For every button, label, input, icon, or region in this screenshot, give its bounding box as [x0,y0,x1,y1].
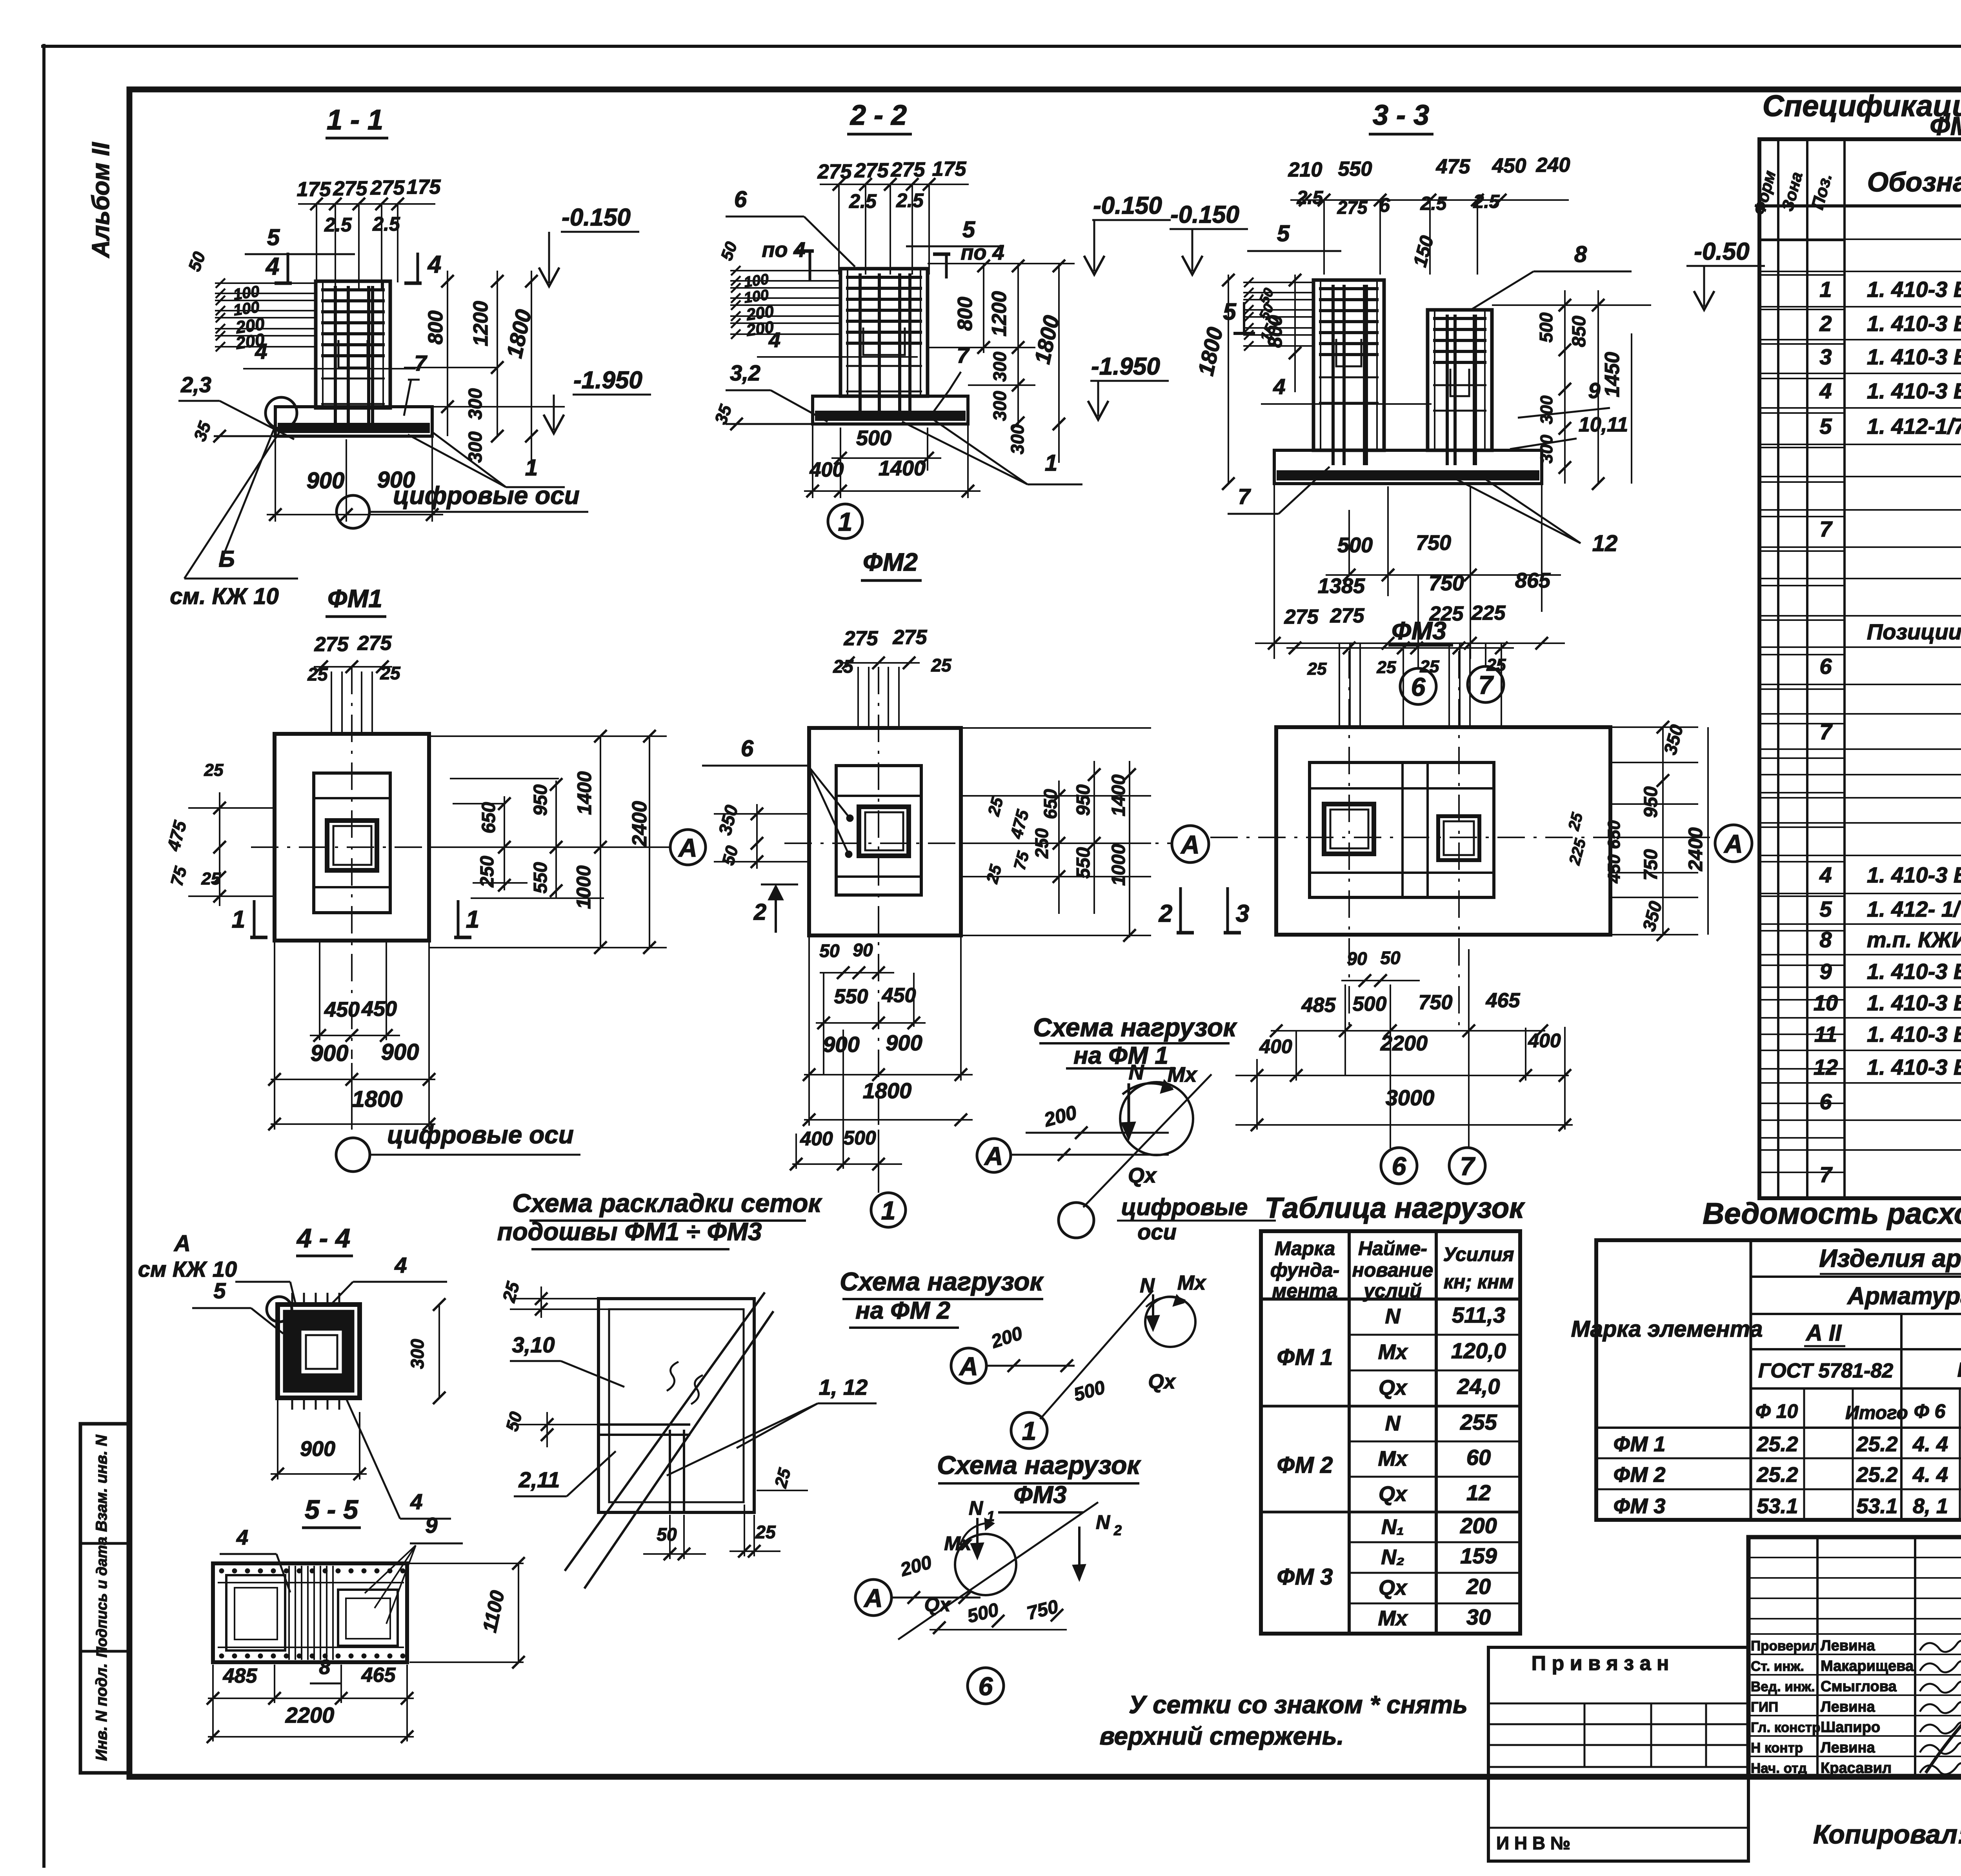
svg-text:6: 6 [1819,654,1832,679]
svg-text:2.5: 2.5 [372,213,400,235]
svg-text:1: 1 [1022,1416,1037,1445]
svg-text:12: 12 [1466,1480,1491,1505]
svg-text:500: 500 [1337,533,1373,557]
svg-text:1. 410-3 Вып. 1: 1. 410-3 Вып. 1 [1867,1022,1961,1046]
svg-text:Ст. инж.: Ст. инж. [1751,1659,1804,1674]
svg-text:400: 400 [1259,1035,1292,1057]
svg-text:Схема нагрузок: Схема нагрузок [937,1450,1141,1479]
svg-text:53.1: 53.1 [1757,1494,1798,1518]
svg-text:Позиции 1÷5 см.: Позиции 1÷5 см. [1867,619,1961,644]
svg-text:ФМ3: ФМ3 [1013,1481,1066,1508]
svg-text:300: 300 [990,351,1010,382]
svg-text:т.п. КЖИ.100.00.01: т.п. КЖИ.100.00.01 [1867,927,1961,952]
svg-text:1: 1 [838,507,853,536]
svg-text:Мx: Мx [1378,1340,1408,1364]
svg-text:ФМ1: ФМ1 [327,584,382,613]
svg-text:Qx: Qx [1379,1376,1408,1399]
svg-text:900: 900 [311,1041,349,1066]
load scheme FM3 sketch [855,1579,891,1616]
svg-text:мента: мента [1272,1280,1337,1302]
svg-text:ФМ 1: ФМ 1 [1614,1432,1666,1456]
load table header [1261,1297,1520,1301]
svg-text:Мx: Мx [1167,1063,1197,1086]
plan FM1 horizontal axis [251,846,669,848]
svg-text:275: 275 [333,177,368,200]
svg-text:25: 25 [755,1522,776,1542]
svg-text:N: N [1096,1511,1110,1533]
svg-text:8: 8 [319,1656,331,1679]
svg-text:Qx: Qx [1148,1370,1176,1393]
section 2-2 axis circle 1 [828,504,862,539]
svg-text:850: 850 [1569,316,1590,347]
svg-text:90: 90 [853,940,873,960]
plan FM3 axis circles 6 7 [1381,1148,1417,1184]
svg-text:50: 50 [819,941,840,961]
svg-text:950: 950 [530,784,551,816]
svg-text:500: 500 [843,1127,876,1149]
plan FM3 axis circle A right [1715,825,1752,862]
svg-text:N: N [1385,1305,1401,1328]
svg-text:6: 6 [1379,194,1390,216]
svg-text:5 - 5: 5 - 5 [305,1495,358,1525]
svg-text:175: 175 [407,176,441,198]
title block signature rows [1748,1633,1961,1635]
plan FM1 outer square [275,734,429,941]
svg-text:А: А [984,1141,1003,1170]
plan FM2 bottom axis circle 1 [871,1193,906,1227]
svg-text:465: 465 [361,1664,396,1687]
plan FM2 vertical axis [878,667,879,1192]
svg-text:Qx: Qx [1128,1164,1157,1187]
svg-text:ГОСТ 5781-82: ГОСТ 5781-82 [1758,1359,1893,1382]
svg-text:1: 1 [881,1196,896,1225]
svg-text:-0.150: -0.150 [1170,201,1239,228]
title block outer [1748,1537,1961,1777]
svg-text:550: 550 [1338,158,1372,180]
svg-text:210: 210 [1288,158,1322,181]
mesh layout square inner border [609,1309,744,1502]
svg-text:8, 1: 8, 1 [1913,1494,1948,1518]
svg-text:159: 159 [1460,1543,1497,1568]
svg-text:2: 2 [753,899,766,925]
svg-text:Макарищева: Макарищева [1821,1658,1914,1674]
svg-text:Мx: Мx [944,1532,972,1554]
svg-text:25.2: 25.2 [1756,1463,1798,1487]
svg-text:кн; кнм: кн; кнм [1444,1271,1514,1293]
svg-text:Марка элемента: Марка элемента [1571,1316,1763,1342]
section 2-2 column [840,269,928,396]
section 5-5 outer rect [213,1563,407,1662]
plan FM1 bottom axis circle [336,1138,370,1172]
svg-text:-0.150: -0.150 [562,204,631,231]
svg-text:Таблица нагрузок: Таблица нагрузок [1264,1192,1525,1224]
plan FM1 anchor square [327,821,377,870]
svg-text:225: 225 [1429,602,1464,625]
plan FM1 inner rect [314,773,390,913]
mesh layout mid horizontal seam [598,1423,690,1426]
sheet outer border left line [42,44,45,1868]
svg-text:ФМ 3: ФМ 3 [1277,1564,1333,1590]
svg-text:12: 12 [1814,1055,1838,1079]
spec table narrow column ladder [1759,240,1845,241]
svg-text:4: 4 [1819,378,1832,403]
svg-text:90: 90 [1347,948,1367,969]
svg-text:Смыглова: Смыглова [1821,1678,1897,1695]
load scheme FM1 diagonal [1083,1074,1212,1207]
svg-text:1200: 1200 [469,301,492,346]
load scheme FM1 sketch [977,1139,1011,1172]
svg-text:500: 500 [856,426,891,450]
section 3-3 left dim 800 [1294,275,1296,392]
svg-text:ГОСТ 5781- 82: ГОСТ 5781- 82 [1957,1359,1961,1381]
section 3-3 axis circles 6 and 7 [1400,668,1436,704]
svg-text:300: 300 [990,391,1010,421]
svg-text:Мx: Мx [1378,1447,1408,1470]
section 3-3 footing [1274,450,1542,484]
plan FM2 horizontal axis [784,842,1171,844]
svg-text:53.1: 53.1 [1856,1494,1897,1518]
svg-text:250: 250 [1031,828,1052,859]
svg-text:Подпись и дата: Подпись и дата [94,1537,110,1658]
svg-text:см КЖ 10: см КЖ 10 [138,1257,237,1281]
svg-text:7: 7 [1460,1152,1476,1181]
svg-text:см. КЖ 10: см. КЖ 10 [170,584,278,609]
svg-text:Нач. отд: Нач. отд [1751,1761,1807,1776]
svg-text:240: 240 [1536,154,1570,177]
svg-text:1. 410-3 Вып. 1: 1. 410-3 Вып. 1 [1867,378,1961,403]
svg-text:Ведомость расхода стали на: Ведомость расхода стали на элемент, кг [1703,1197,1961,1230]
svg-text:А: А [959,1352,978,1381]
svg-text:1450: 1450 [1601,352,1624,397]
svg-text:на ФМ 1: на ФМ 1 [1073,1042,1168,1069]
svg-text:А: А [173,1231,191,1256]
plan FM3 inner rect [1310,762,1494,897]
section 1-1 bottom dim 900 900 [275,436,276,522]
svg-text:60: 60 [1466,1445,1491,1470]
section 1-1 cut mark 4 left [287,253,289,283]
svg-text:ФМ 3: ФМ 3 [1614,1494,1666,1518]
svg-text:1, 12: 1, 12 [819,1375,868,1399]
svg-text:255: 255 [1460,1410,1497,1434]
plan FM2 inner rect [836,766,921,895]
section 1-1 footing [275,407,432,436]
load scheme FM1 axis circle [1059,1203,1094,1238]
svg-text:275: 275 [1284,606,1319,628]
svg-text:475: 475 [1436,155,1471,178]
svg-text:2.5: 2.5 [324,214,352,236]
svg-text:800: 800 [954,297,977,331]
svg-text:2: 2 [1819,311,1832,336]
privyazan grid [1488,1703,1748,1705]
svg-text:Марка: Марка [1275,1237,1335,1259]
svg-text:Qx: Qx [1379,1482,1408,1506]
section 1-1 top dimension line [298,203,435,205]
section 3-3 left mesh ladder [1243,282,1313,283]
load scheme FM1 moment circle [1120,1082,1193,1155]
svg-text:650: 650 [1040,789,1061,819]
svg-text:1000: 1000 [1108,844,1129,886]
svg-text:25: 25 [1420,657,1439,676]
svg-text:3: 3 [1236,900,1249,927]
svg-text:500: 500 [1353,993,1387,1015]
svg-text:1400: 1400 [573,771,595,815]
section 1-1 right dimension stack [432,406,565,408]
svg-text:Усилия: Усилия [1443,1243,1514,1265]
plan FM2 right dimension stack [961,727,1151,729]
svg-text:Изделия арматурные: Изделия арматурные [1819,1244,1961,1272]
plan FM2 anchor square [859,807,909,856]
svg-text:300: 300 [465,431,486,463]
plan FM3 right anchor square [1438,816,1479,860]
svg-text:Проверил: Проверил [1751,1638,1819,1654]
svg-text:511,3: 511,3 [1452,1303,1505,1327]
svg-text:3,2: 3,2 [730,360,760,385]
svg-text:5: 5 [1277,221,1290,246]
spec table header row [1759,204,1961,207]
section 3-3 left dim 1800 [1228,275,1229,484]
svg-text:У сетки со знаком * снять: У сетки со знаком * снять [1129,1690,1468,1719]
mesh layout square outer [598,1299,754,1512]
svg-text:4. 4: 4. 4 [1912,1463,1948,1487]
svg-text:5: 5 [1223,298,1237,325]
svg-text:2.5: 2.5 [849,190,877,212]
svg-text:750: 750 [1419,991,1453,1014]
left stamp column [80,1424,129,1773]
svg-text:цифровые: цифровые [1121,1194,1248,1220]
svg-text:1385: 1385 [1318,574,1365,598]
svg-text:ФМ 2: ФМ 2 [1614,1463,1666,1487]
svg-text:Левина: Левина [1821,1638,1875,1654]
svg-text:Копировал: Алешикова: Копировал: Алешикова [1813,1820,1961,1849]
svg-text:300: 300 [407,1339,427,1369]
svg-text:1. 410-3 Вып. 1: 1. 410-3 Вып. 1 [1867,277,1961,302]
svg-text:подошвы ФМ1 ÷ ФМ3: подошвы ФМ1 ÷ ФМ3 [497,1217,762,1246]
mesh layout mid vertical seam [669,1430,671,1512]
svg-text:Красавил: Красавил [1821,1760,1892,1776]
svg-text:950: 950 [1641,786,1661,818]
svg-text:750: 750 [1416,531,1451,555]
section 3-3 right dimension stack [1492,304,1651,306]
svg-text:10,11: 10,11 [1579,413,1628,436]
svg-text:3000: 3000 [1386,1085,1435,1110]
svg-text:50: 50 [657,1524,677,1545]
svg-text:-1.950: -1.950 [573,367,642,394]
svg-text:275: 275 [357,632,392,655]
svg-text:865: 865 [1515,569,1551,592]
svg-text:Найме-: Найме- [1358,1237,1427,1259]
svg-text:485: 485 [223,1665,258,1687]
svg-text:1000: 1000 [573,865,595,909]
svg-text:6: 6 [741,736,754,761]
svg-text:2 - 2: 2 - 2 [850,100,907,131]
svg-text:175: 175 [297,178,331,201]
svg-text:550: 550 [530,862,551,893]
svg-text:25: 25 [1377,658,1396,677]
plan FM3 outer rect [1276,727,1610,935]
svg-text:Инв. N подл.: Инв. N подл. [93,1663,110,1761]
plan FM1 right dimension stack [429,735,667,737]
plan FM1 axis circle A [670,830,706,865]
steel table data rows [1596,1427,1961,1429]
svg-text:N: N [1385,1412,1401,1435]
svg-text:4: 4 [768,328,780,352]
svg-text:275: 275 [844,627,879,650]
svg-text:300: 300 [1537,395,1556,424]
svg-text:6: 6 [979,1672,993,1701]
svg-text:9: 9 [1819,959,1832,984]
svg-text:4: 4 [427,251,441,278]
svg-text:7: 7 [1819,1162,1833,1187]
svg-text:6: 6 [1819,1089,1832,1114]
load scheme FM2 axis circle 1 [1011,1412,1047,1448]
svg-text:N₁: N₁ [1381,1515,1404,1539]
svg-text:5: 5 [962,217,975,242]
svg-text:20: 20 [1466,1574,1491,1599]
svg-text:2,11: 2,11 [518,1467,560,1492]
svg-text:25.2: 25.2 [1756,1432,1798,1456]
svg-text:4: 4 [255,339,267,364]
svg-text:25.2: 25.2 [1856,1463,1897,1487]
load table outer box [1261,1231,1520,1634]
svg-text:ГИП: ГИП [1751,1699,1778,1715]
svg-text:2400: 2400 [628,801,651,847]
svg-text:1. 410-3 Вып. 1: 1. 410-3 Вып. 1 [1867,959,1961,984]
svg-text:-0.50: -0.50 [1694,238,1749,265]
svg-text:7: 7 [957,343,970,368]
svg-text:900: 900 [381,1039,419,1065]
svg-text:N₂: N₂ [1381,1545,1404,1569]
svg-text:ФМ 2: ФМ 2 [1277,1452,1333,1478]
load scheme FM3 axis circle 6 [968,1668,1004,1704]
svg-text:Левина: Левина [1821,1740,1875,1756]
svg-text:N: N [1140,1274,1155,1297]
svg-text:на ФМ 2: на ФМ 2 [855,1297,950,1324]
svg-text:5: 5 [1819,414,1832,439]
svg-text:А: А [678,833,697,862]
plan FM3 right dimension stack [1610,726,1698,728]
svg-text:400: 400 [810,459,844,481]
plan FM1 vertical axis [351,667,353,1059]
svg-text:450: 450 [882,984,916,1007]
svg-text:800: 800 [1264,315,1286,348]
svg-text:400: 400 [1528,1030,1561,1052]
svg-text:1: 1 [1045,450,1057,476]
svg-text:А: А [1723,829,1743,858]
load scheme FM2 sketch [951,1348,986,1383]
svg-text:4 - 4: 4 - 4 [296,1223,350,1253]
section 2-2 left mesh ladder [730,270,840,271]
svg-text:Qx: Qx [1379,1576,1408,1599]
svg-text:услий: услий [1363,1280,1422,1302]
svg-text:25: 25 [931,655,952,675]
svg-text:оси: оси [1137,1219,1177,1244]
svg-text:4: 4 [265,253,279,280]
svg-text:1: 1 [232,906,245,933]
svg-text:250: 250 [477,856,498,888]
svg-text:200: 200 [1460,1513,1497,1538]
svg-text:Qx: Qx [924,1594,951,1616]
svg-text:2: 2 [1159,900,1172,927]
svg-text:4: 4 [410,1489,422,1514]
svg-text:3: 3 [1819,344,1832,369]
svg-text:300: 300 [465,388,486,420]
privyazan block outline [1488,1647,1748,1861]
svg-text:1. 412- 1/77 Вып. 3: 1. 412- 1/77 Вып. 3 [1867,897,1961,921]
svg-text:Схема нагрузок: Схема нагрузок [1033,1013,1237,1042]
svg-text:ФМ2: ФМ2 [863,548,918,576]
svg-text:А: А [1180,830,1200,859]
svg-text:Взам. инв. N: Взам. инв. N [93,1434,110,1532]
svg-text:8: 8 [1574,242,1587,267]
svg-text:750: 750 [1641,849,1661,881]
svg-text:1. 410-3 Вып. 1: 1. 410-3 Вып. 1 [1867,862,1961,887]
svg-text:Итого: Итого [1845,1403,1908,1423]
svg-text:П р и в я з а н: П р и в я з а н [1532,1652,1669,1675]
svg-text:1400: 1400 [1108,774,1129,816]
svg-text:4: 4 [236,1526,248,1549]
svg-text:2.5: 2.5 [1473,191,1500,212]
svg-text:7: 7 [1479,670,1494,699]
svg-text:Альбом II: Альбом II [87,142,115,258]
svg-text:1: 1 [466,906,479,933]
section 1-1 anchor bolt extension lines [335,204,336,290]
section 2-2 top dimension line [820,184,969,185]
svg-text:465: 465 [1486,989,1521,1012]
svg-text:50: 50 [1380,948,1401,968]
svg-text:А: А [863,1583,883,1612]
svg-text:4: 4 [1273,374,1285,399]
section 1-1 axis circle [337,495,369,528]
section 5-5 middle vertical mesh [288,1566,290,1660]
svg-text:25: 25 [204,761,224,780]
svg-text:900: 900 [823,1032,859,1057]
svg-text:Н контр: Н контр [1751,1740,1803,1756]
plan FM3 horizontal axis [1210,837,1710,838]
section 1-1 detail circle B [266,397,297,429]
svg-text:N: N [969,1497,983,1519]
svg-text:225: 225 [1471,602,1506,624]
svg-text:550: 550 [834,985,868,1008]
svg-text:900: 900 [307,468,345,493]
svg-text:Шапиро: Шапиро [1821,1719,1880,1736]
svg-text:Схема раскладки сеток: Схема раскладки сеток [512,1188,822,1217]
sheet outer border top line [41,45,1961,48]
svg-text:10: 10 [1814,990,1838,1015]
svg-text:6: 6 [1411,672,1426,701]
svg-text:Мx: Мx [1177,1272,1206,1294]
plan FM1 cut marks 1 [253,900,256,937]
svg-text:275: 275 [1330,604,1365,627]
svg-text:485: 485 [1301,994,1336,1017]
svg-text:2.5: 2.5 [1297,187,1324,208]
section 1-1 ground line with 35 [214,435,275,437]
svg-text:300: 300 [1537,435,1556,464]
title block big signature stroke [1926,1687,1961,1773]
svg-text:30: 30 [1466,1605,1491,1629]
section 4-4 hatched square [278,1305,360,1398]
svg-text:175: 175 [932,158,967,180]
svg-text:верхний стержень.: верхний стержень. [1099,1722,1344,1750]
section 4-4 rebar ticks [291,1293,293,1306]
svg-text:5: 5 [213,1278,226,1303]
svg-text:25: 25 [1486,655,1506,675]
svg-text:450: 450 [1604,854,1624,884]
svg-text:Ф 6: Ф 6 [1914,1400,1946,1422]
section 2-2 footing [813,396,968,424]
svg-text:1. 410-3 Вып. 1: 1. 410-3 Вып. 1 [1867,311,1961,336]
svg-text:4: 4 [394,1253,407,1277]
svg-text:Обозначение: Обозначение [1867,167,1961,197]
